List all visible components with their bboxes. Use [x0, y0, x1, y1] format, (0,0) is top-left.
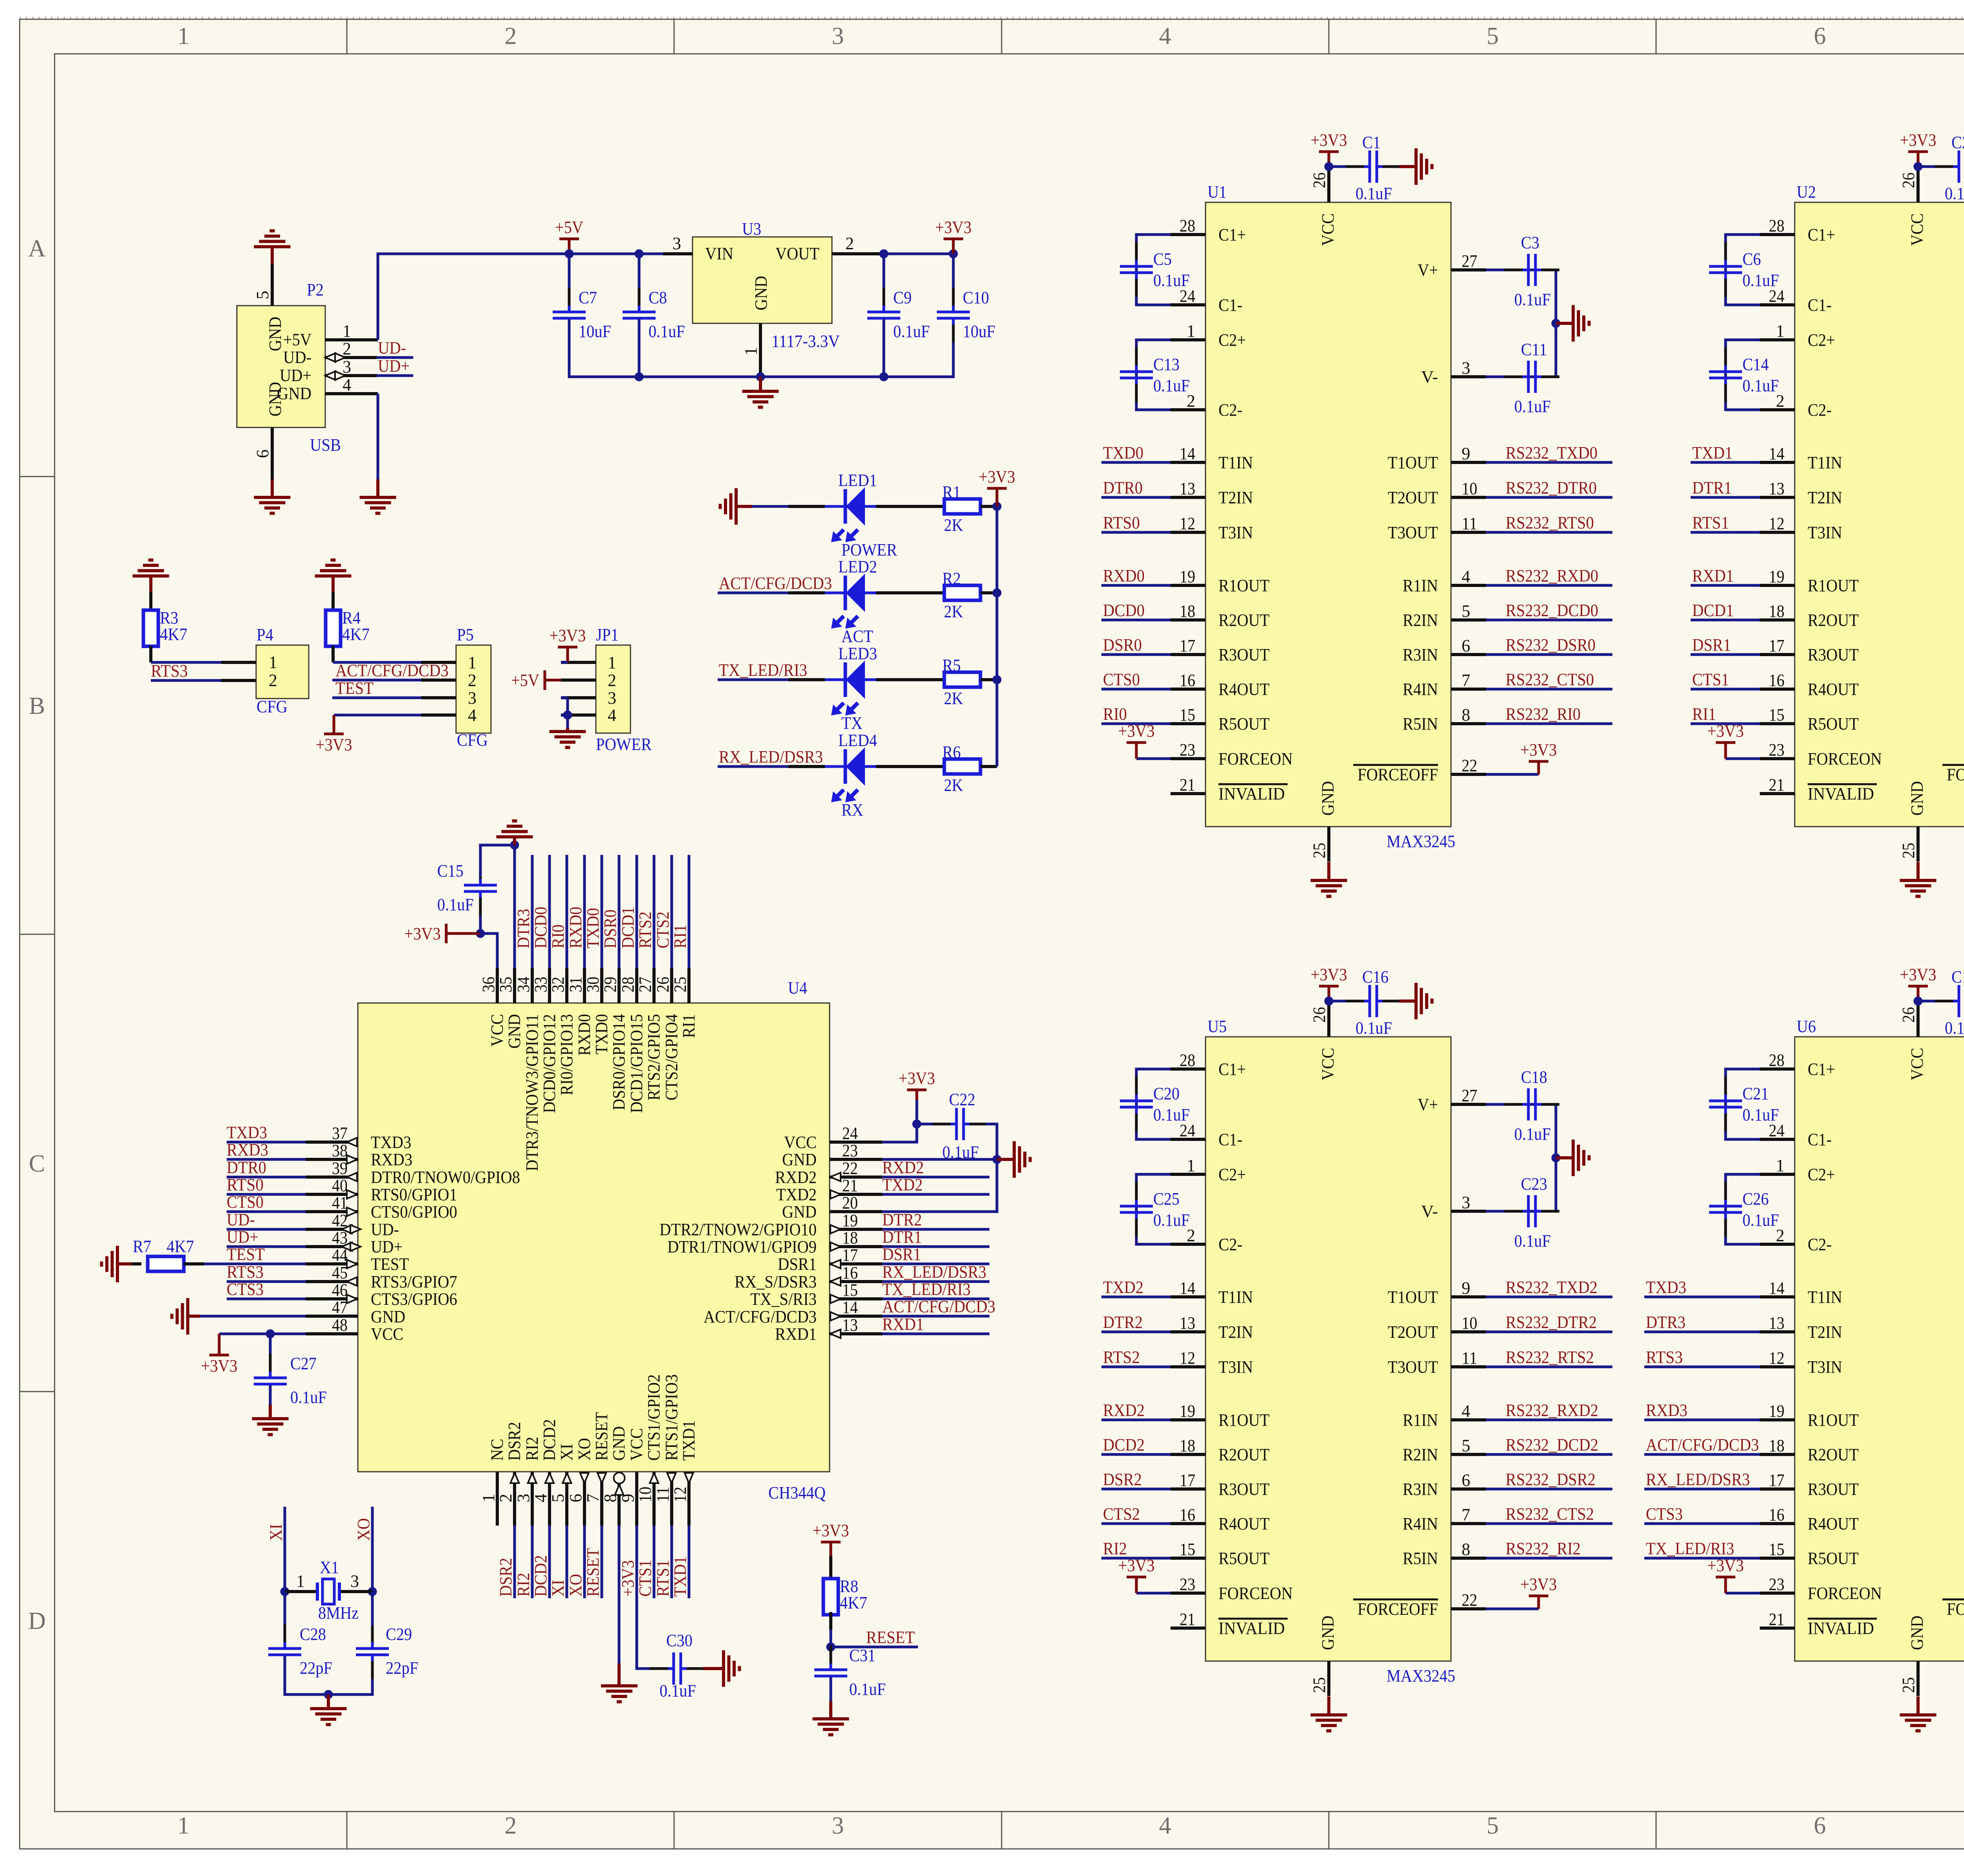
wire net RS232_DSR0 [1486, 653, 1612, 656]
svg-text:37: 37 [332, 1124, 348, 1143]
svg-text:R1OUT: R1OUT [1218, 576, 1270, 595]
R8 lead [829, 1612, 832, 1630]
pin 6 [271, 427, 274, 479]
pin arrow [335, 353, 345, 362]
svg-text:15: 15 [1769, 1540, 1784, 1559]
svg-text:DSR1: DSR1 [778, 1254, 817, 1274]
svg-text:CTS2/GPIO4: CTS2/GPIO4 [662, 1014, 681, 1100]
capacitor C28 [268, 1624, 332, 1679]
svg-text:RXD0: RXD0 [575, 1014, 594, 1056]
ground at C31 [813, 1719, 849, 1735]
svg-text:33: 33 [531, 977, 550, 992]
svg-text:1: 1 [1776, 1156, 1784, 1175]
svg-text:16: 16 [1769, 671, 1784, 690]
pin arrow [830, 1260, 841, 1268]
pin 4 [421, 713, 456, 717]
svg-text:T3OUT: T3OUT [1388, 1357, 1438, 1377]
svg-text:DTR1/TNOW1/GPIO9: DTR1/TNOW1/GPIO9 [667, 1237, 817, 1256]
wire net RI0 [1101, 723, 1171, 725]
wire net ACT/CFG/DCD3 [718, 592, 788, 594]
svg-text:C20: C20 [1153, 1084, 1180, 1103]
svg-text:C7: C7 [579, 288, 597, 307]
svg-text:C1+: C1+ [1218, 225, 1246, 244]
svg-text:5: 5 [253, 291, 272, 299]
wire JP1 pin4 [561, 714, 568, 717]
wire net DSR1 [882, 1263, 989, 1265]
junction [949, 249, 958, 259]
svg-text:+3V3: +3V3 [618, 1560, 638, 1597]
R4 lead [332, 646, 335, 662]
pin arrow [347, 1190, 357, 1199]
svg-text:23: 23 [842, 1141, 858, 1160]
svg-text:TXD0: TXD0 [1103, 443, 1143, 462]
pin arrow [830, 1330, 841, 1338]
pin 6 R3IN [1451, 653, 1486, 656]
pin arrow [325, 353, 335, 362]
svg-text:DTR3: DTR3 [514, 909, 533, 948]
wire net RXD0 [1101, 584, 1171, 587]
svg-text:1: 1 [178, 1812, 190, 1839]
svg-text:3: 3 [832, 1812, 844, 1839]
wire C7 top [568, 254, 571, 311]
ground at R3 [133, 560, 169, 576]
svg-text:ACT/CFG/DCD3: ACT/CFG/DCD3 [882, 1297, 995, 1316]
junction [565, 249, 574, 259]
wire net TXD2 [882, 1193, 989, 1196]
LED lead [788, 765, 825, 768]
svg-text:T2IN: T2IN [1218, 488, 1253, 507]
LED LED1 [825, 471, 898, 559]
svg-text:0.1uF: 0.1uF [1514, 397, 1551, 416]
R3 lead [149, 646, 152, 662]
capacitor C31 [814, 1645, 886, 1700]
wire +3V3 rail [996, 506, 998, 767]
svg-text:R5OUT: R5OUT [1808, 1549, 1859, 1568]
wire +5V rail [378, 254, 663, 340]
wire net CTS3 [227, 1298, 306, 1300]
svg-text:RXD1: RXD1 [775, 1324, 817, 1344]
wire [200, 1315, 306, 1318]
LED LED3 [825, 644, 877, 733]
svg-text:4K7: 4K7 [160, 625, 187, 644]
power port +3V3 at U5 VCC [1311, 965, 1347, 1001]
wire C1+/C1- loop [1726, 235, 1760, 305]
pin 19 R1OUT [1171, 584, 1206, 587]
R3 lead [149, 592, 152, 611]
svg-text:RS232_RXD0: RS232_RXD0 [1506, 566, 1598, 585]
wire C29 top [371, 1592, 374, 1626]
svg-text:R1: R1 [942, 482, 961, 502]
svg-text:RI0: RI0 [1103, 704, 1127, 724]
svg-text:USB: USB [310, 435, 341, 455]
svg-text:1: 1 [468, 653, 476, 672]
wire net DCD2 [548, 1526, 551, 1598]
pin 2 [221, 679, 256, 682]
svg-text:1: 1 [343, 321, 351, 341]
svg-text:+3V3: +3V3 [1311, 965, 1347, 984]
power port +5V [511, 670, 561, 690]
svg-text:CTS0: CTS0 [1103, 670, 1140, 689]
svg-text:8: 8 [1462, 1540, 1470, 1559]
pin 38 RXD3 [306, 1158, 358, 1161]
svg-text:13: 13 [842, 1315, 858, 1335]
wire net DTR1 [882, 1245, 989, 1248]
svg-text:P5: P5 [457, 625, 474, 644]
svg-text:GND: GND [371, 1307, 405, 1326]
svg-text:CTS2: CTS2 [653, 911, 672, 948]
svg-text:INVALID: INVALID [1218, 1619, 1285, 1638]
pin 25 GND [1327, 1661, 1330, 1696]
svg-text:2K: 2K [944, 515, 963, 535]
pin 30 TXD0 [600, 968, 603, 1003]
svg-text:17: 17 [1180, 636, 1195, 655]
pin 3 [561, 696, 596, 699]
svg-text:P4: P4 [256, 625, 273, 644]
svg-text:DSR2: DSR2 [496, 1558, 515, 1597]
pin 20 GND [830, 1210, 882, 1213]
ground at P2 pin 5 [254, 231, 291, 247]
pin 1 C2+ [1171, 338, 1206, 341]
wire [1329, 1000, 1347, 1003]
svg-text:28: 28 [618, 977, 638, 992]
svg-text:12: 12 [1180, 514, 1195, 533]
svg-text:C9: C9 [893, 288, 912, 307]
svg-text:19: 19 [1180, 567, 1195, 586]
wire [1329, 165, 1347, 168]
svg-text:DCD2: DCD2 [540, 1419, 559, 1461]
pin 41 CTS0/GPIO0 [306, 1210, 358, 1213]
wire FORCEOFF [1486, 1608, 1539, 1610]
svg-text:R5OUT: R5OUT [1218, 1549, 1270, 1568]
svg-text:DTR3/TNOW3/GPIO11: DTR3/TNOW3/GPIO11 [522, 1014, 542, 1171]
pin 12 T3IN [1171, 1365, 1206, 1368]
wire net RS232_DCD0 [1486, 619, 1612, 622]
svg-text:RXD1: RXD1 [882, 1315, 924, 1334]
pin 15 R5OUT [1760, 1557, 1795, 1560]
wire R3 to P4 [151, 661, 256, 664]
svg-text:RS232_RI2: RS232_RI2 [1506, 1539, 1581, 1558]
svg-text:17: 17 [1769, 1471, 1784, 1490]
svg-text:0.1uF: 0.1uF [1153, 1210, 1190, 1230]
svg-text:16: 16 [1180, 1505, 1195, 1524]
pin 8 R5IN [1451, 1557, 1486, 1560]
svg-text:RS232_RXD2: RS232_RXD2 [1506, 1401, 1598, 1420]
pin arrow [650, 1473, 658, 1483]
svg-text:2K: 2K [944, 689, 963, 708]
svg-text:12: 12 [671, 1487, 690, 1502]
ground at R7 [102, 1246, 118, 1282]
gnd stem [1399, 165, 1416, 168]
wire VCC [882, 1100, 917, 1142]
svg-text:RS232_TXD0: RS232_TXD0 [1506, 443, 1598, 462]
pin 1 NC [496, 1472, 499, 1526]
ground at U1 pin 25 [1311, 880, 1347, 897]
wire net TX_LED/RI3 [1644, 1557, 1760, 1560]
svg-text:TXD3: TXD3 [227, 1123, 267, 1142]
junction [879, 372, 889, 381]
gnd stem [1556, 1156, 1573, 1159]
wire net RS232_RI2 [1486, 1557, 1612, 1560]
pin 11 T3OUT [1451, 1365, 1486, 1368]
junction [912, 1120, 922, 1129]
svg-text:RI0: RI0 [548, 924, 568, 948]
svg-text:R6: R6 [942, 743, 961, 762]
pin 2 DSR2 [513, 1472, 516, 1526]
svg-text:TX_LED/RI3: TX_LED/RI3 [882, 1280, 971, 1299]
svg-text:28: 28 [1180, 216, 1195, 235]
pin arrow [580, 1473, 589, 1483]
pin 13 T2IN [1760, 1330, 1795, 1333]
svg-text:R3OUT: R3OUT [1808, 645, 1859, 664]
wire GND [618, 1526, 621, 1663]
capacitor C7 [553, 288, 611, 343]
capacitor C23 [1504, 1174, 1559, 1251]
gnd stem [513, 837, 516, 845]
svg-text:CTS3: CTS3 [1646, 1504, 1683, 1524]
svg-text:C2-: C2- [1218, 1235, 1242, 1254]
LED/R lead [876, 678, 944, 681]
ground at JP1 [550, 732, 586, 748]
svg-text:R5: R5 [942, 656, 961, 675]
wire ground rail [569, 319, 953, 377]
pin arrow [347, 1260, 357, 1268]
svg-text:14: 14 [1769, 1278, 1784, 1298]
svg-text:24: 24 [842, 1124, 858, 1143]
svg-text:CFG: CFG [457, 730, 488, 750]
svg-text:19: 19 [1769, 567, 1784, 586]
svg-text:UD-: UD- [283, 348, 311, 367]
pin 23 FORCEON [1760, 757, 1795, 760]
svg-text:R5IN: R5IN [1403, 1549, 1438, 1568]
wire net RI1 [688, 855, 691, 968]
pin 17 R3OUT [1760, 653, 1795, 656]
svg-text:VOUT: VOUT [775, 244, 819, 263]
svg-text:+3V3: +3V3 [316, 735, 352, 754]
pin 26 CTS2/GPIO4 [670, 968, 673, 1003]
svg-text:27: 27 [636, 977, 655, 992]
svg-text:CFG: CFG [256, 697, 288, 716]
svg-text:U5: U5 [1207, 1017, 1227, 1036]
pin 24 C1- [1760, 303, 1795, 306]
svg-text:23: 23 [1769, 1575, 1784, 1594]
svg-text:8: 8 [1462, 705, 1470, 724]
svg-text:R5IN: R5IN [1403, 714, 1438, 734]
capacitor C15 [437, 861, 497, 916]
svg-text:21: 21 [842, 1176, 858, 1195]
svg-text:R1OUT: R1OUT [1808, 1410, 1859, 1430]
wire net RXD2 [882, 1176, 989, 1179]
svg-text:39: 39 [332, 1159, 348, 1178]
svg-text:ACT/CFG/DCD3: ACT/CFG/DCD3 [719, 574, 832, 593]
pin 21 INVALID [1760, 1627, 1795, 1630]
pin 22 FORCEOFF [1451, 1607, 1486, 1610]
svg-text:0.1uF: 0.1uF [1742, 1105, 1779, 1124]
junction [324, 1690, 333, 1699]
pin 15 R5OUT [1760, 722, 1795, 725]
pin arrow [350, 1242, 361, 1251]
pin 12 T3IN [1760, 1365, 1795, 1368]
wire net XI [284, 1507, 286, 1592]
pin 2 UD- [325, 356, 377, 359]
svg-text:RS232_DTR0: RS232_DTR0 [1506, 478, 1597, 497]
svg-text:4: 4 [1462, 567, 1470, 586]
svg-text:+3V3: +3V3 [1900, 130, 1937, 150]
pin 28 DCD1/GPIO15 [635, 968, 638, 1003]
svg-text:TXD2: TXD2 [1103, 1278, 1143, 1297]
wire net RTS3 [227, 1280, 306, 1283]
ground at crystal [310, 1709, 347, 1725]
wire C15 top [480, 845, 515, 877]
wire net TXD1 [688, 1526, 691, 1598]
svg-text:CTS1: CTS1 [1692, 670, 1729, 689]
svg-text:9: 9 [1462, 1278, 1470, 1298]
pin 18 R2OUT [1171, 618, 1206, 622]
svg-text:FORCEOFF: FORCEOFF [1358, 765, 1438, 784]
wire V+/V- rail [1486, 270, 1556, 377]
svg-text:5: 5 [1462, 601, 1470, 621]
svg-text:11: 11 [653, 1487, 672, 1502]
svg-text:13: 13 [1180, 1313, 1195, 1333]
svg-text:2: 2 [496, 1494, 515, 1502]
svg-text:C25: C25 [1153, 1189, 1180, 1208]
pin 22 RXD2 [830, 1175, 882, 1179]
svg-text:C1-: C1- [1218, 1130, 1242, 1149]
svg-text:+3V3: +3V3 [1311, 130, 1347, 150]
pin 11 RTS1/GPIO3 [670, 1472, 673, 1526]
svg-text:T2IN: T2IN [1808, 488, 1842, 507]
svg-text:6: 6 [253, 449, 272, 458]
svg-text:TEST: TEST [227, 1245, 265, 1264]
svg-text:13: 13 [1769, 479, 1784, 498]
wire net RTS3 [1644, 1366, 1760, 1368]
pin 24 C1- [1171, 1138, 1206, 1141]
power port +3V3 at U1 VCC [1311, 130, 1347, 167]
wire net DCD2 [1101, 1453, 1171, 1456]
svg-text:10uF: 10uF [963, 322, 995, 341]
R lead [980, 591, 997, 594]
svg-text:TXD3: TXD3 [371, 1133, 411, 1152]
junction [635, 249, 644, 259]
resistor R5 [942, 656, 980, 708]
wire FORCEON [1726, 757, 1760, 760]
svg-text:1: 1 [1187, 321, 1195, 341]
junction [368, 1587, 377, 1596]
pin 19 R1OUT [1760, 1418, 1795, 1421]
pin 3 UD+ [325, 374, 377, 377]
wire net UD- [227, 1228, 306, 1231]
gnd stem [1916, 862, 1920, 880]
pin 40 RTS0/GPIO1 [306, 1193, 358, 1196]
svg-text:16: 16 [842, 1263, 858, 1282]
pin 26 VCC [1327, 167, 1330, 202]
pin 10 T2OUT [1451, 1330, 1486, 1333]
wire net TXD2 [1101, 1296, 1171, 1298]
pin 7 R4IN [1451, 1522, 1486, 1525]
pin 23 FORCEON [1171, 1592, 1206, 1595]
wire C8 bottom [638, 319, 641, 377]
power port +3V3 at U2 VCC [1900, 130, 1937, 167]
svg-text:VCC: VCC [1318, 1048, 1337, 1080]
svg-text:16: 16 [1769, 1505, 1784, 1524]
wire net RESET [831, 1646, 918, 1649]
junction [826, 1643, 835, 1652]
wire [1918, 1000, 1937, 1003]
svg-text:28: 28 [1769, 216, 1784, 235]
svg-text:0.1uF: 0.1uF [290, 1388, 327, 1407]
svg-text:T3IN: T3IN [1218, 1357, 1253, 1377]
pin 13 T2IN [1171, 496, 1206, 499]
svg-text:5: 5 [1487, 23, 1499, 50]
wire [1918, 165, 1937, 168]
svg-text:+5V: +5V [283, 330, 311, 349]
wire net DTR2 [882, 1228, 989, 1231]
svg-text:RS232_DSR0: RS232_DSR0 [1506, 635, 1596, 655]
pin 13 T2IN [1171, 1330, 1206, 1333]
svg-text:RTS3: RTS3 [1646, 1348, 1683, 1367]
pin arrow [685, 1473, 693, 1483]
svg-text:T2OUT: T2OUT [1388, 1322, 1438, 1342]
svg-text:44: 44 [332, 1245, 348, 1265]
svg-text:RESET: RESET [866, 1628, 915, 1647]
svg-text:6: 6 [1462, 1471, 1470, 1490]
svg-text:+3V3: +3V3 [813, 1521, 849, 1540]
gnd stem [1327, 862, 1330, 880]
junction [280, 1587, 289, 1596]
wire net RTS1 [1691, 531, 1760, 534]
svg-text:C21: C21 [1742, 1084, 1769, 1103]
wire C1+/C1- loop [1136, 1069, 1171, 1139]
svg-text:RS232_RTS0: RS232_RTS0 [1506, 513, 1594, 532]
pin arrow [335, 371, 345, 380]
pin 19 DTR2/TNOW2/GPIO10 [830, 1228, 882, 1231]
R7 lead [132, 1262, 141, 1265]
LED LED2 [825, 557, 877, 646]
svg-text:ACT/CFG/DCD3: ACT/CFG/DCD3 [1646, 1435, 1759, 1454]
svg-text:RTS1/GPIO3: RTS1/GPIO3 [662, 1374, 681, 1461]
wire net DSR0 [1101, 653, 1171, 656]
svg-text:DTR1: DTR1 [882, 1227, 922, 1247]
svg-text:T1IN: T1IN [1218, 453, 1253, 472]
pin 1 C2+ [1760, 338, 1795, 341]
wire UD- [377, 356, 413, 359]
svg-text:RX_LED/DSR3: RX_LED/DSR3 [882, 1262, 986, 1282]
power port +3V3 [1708, 1556, 1744, 1593]
svg-text:R2: R2 [942, 569, 961, 588]
svg-text:VCC: VCC [1907, 213, 1927, 246]
svg-text:32: 32 [548, 977, 568, 992]
wire net RXD3 [227, 1158, 306, 1161]
svg-text:C1+: C1+ [1218, 1060, 1246, 1079]
pin 25 GND [1916, 1661, 1920, 1696]
svg-text:T3IN: T3IN [1808, 523, 1842, 542]
wire net DTR3 [1644, 1331, 1760, 1333]
svg-text:RTS2: RTS2 [636, 911, 655, 948]
pin 1 [285, 1590, 317, 1593]
svg-text:U3: U3 [742, 219, 761, 238]
svg-text:RXD3: RXD3 [371, 1150, 412, 1169]
pin arrow [830, 1242, 841, 1251]
svg-text:1: 1 [1776, 321, 1784, 341]
svg-text:18: 18 [1769, 1436, 1784, 1455]
pin 6 R3IN [1451, 1487, 1486, 1491]
svg-text:R3IN: R3IN [1403, 1480, 1438, 1499]
wire C1+/C1- loop [1726, 1069, 1760, 1139]
svg-text:18: 18 [1769, 601, 1784, 621]
pin 22 FORCEOFF [1451, 773, 1486, 776]
wire net CTS2 [671, 855, 673, 968]
wire TEST [204, 1263, 306, 1265]
svg-text:V+: V+ [1418, 260, 1438, 280]
